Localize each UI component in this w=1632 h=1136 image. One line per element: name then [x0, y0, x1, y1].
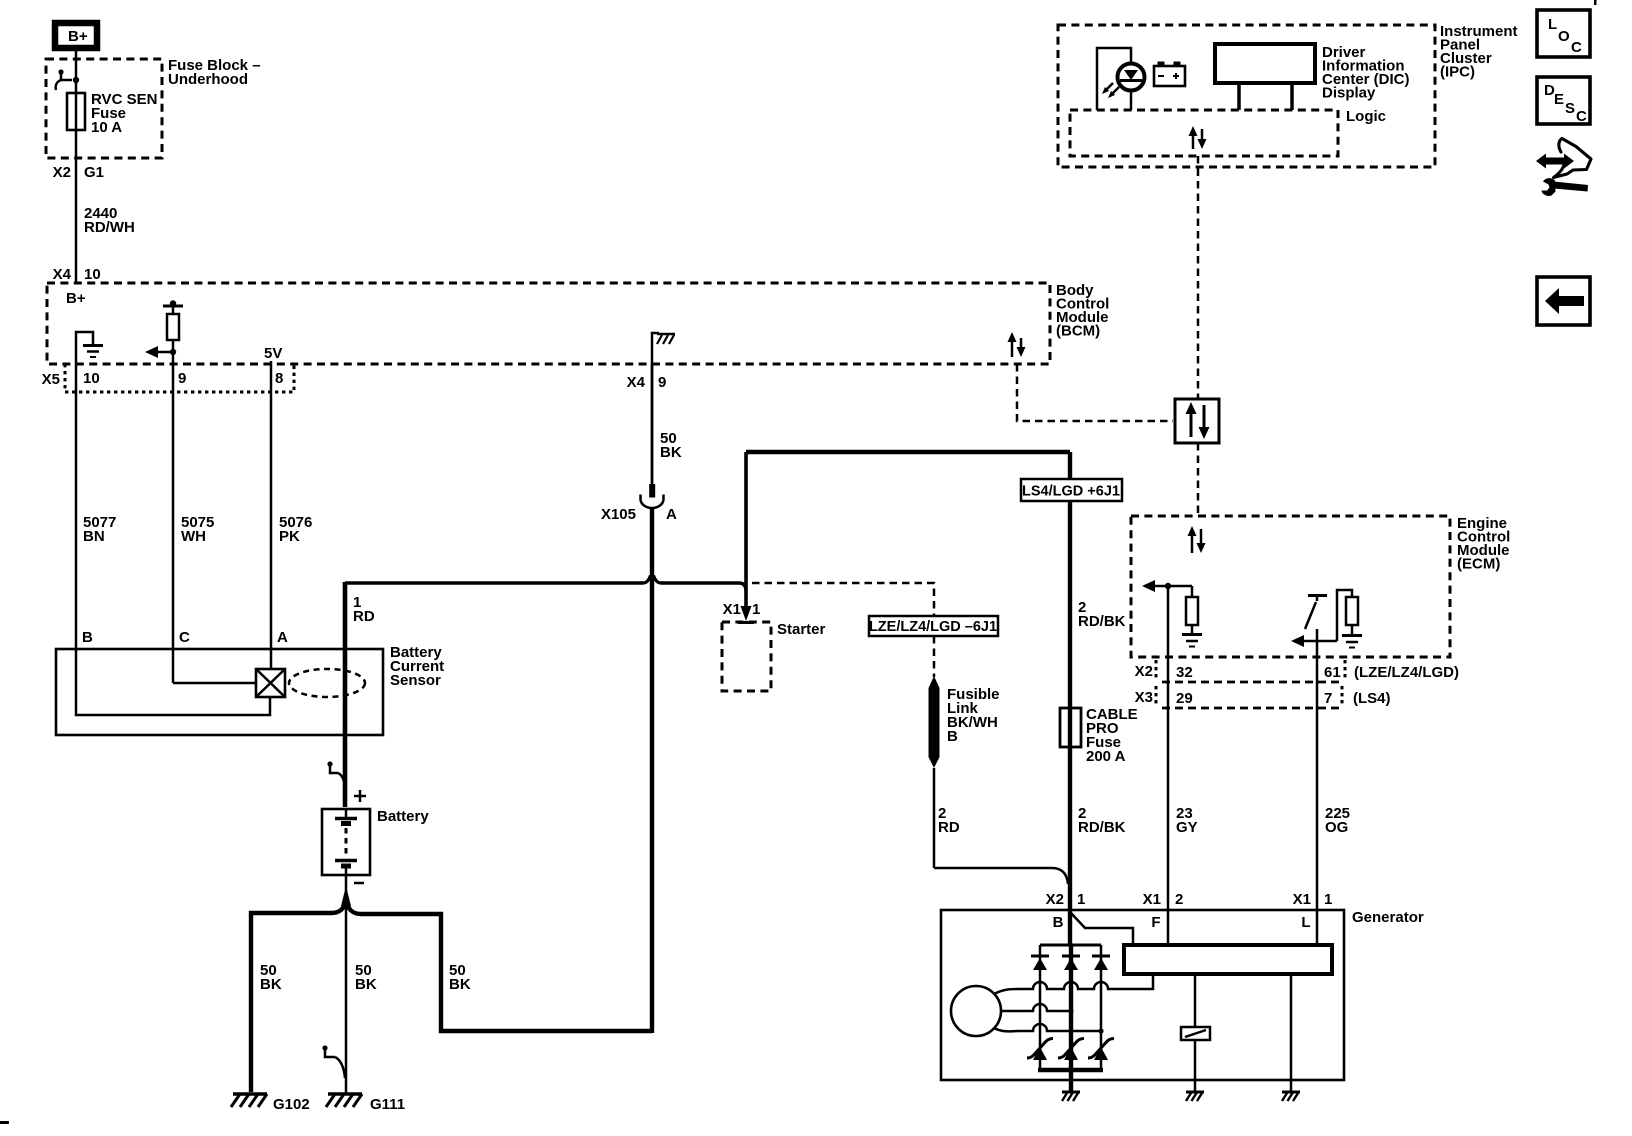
svg-text:X105: X105 — [601, 506, 636, 523]
svg-text:Underhood: Underhood — [168, 71, 248, 88]
generator stator winding circle — [951, 986, 1001, 1036]
wire 5076 PK from X5-8 to sensor pin A — [271, 392, 312, 669]
BCM internal pull-up resistor with supply terminal and signal arrow on pin X5-9 — [145, 300, 183, 364]
svg-text:B+: B+ — [66, 290, 86, 307]
engine control module ECM dashed box — [1131, 515, 1510, 657]
inline connector X105 cavity A — [601, 484, 677, 523]
svg-text:A: A — [666, 506, 677, 523]
svg-text:Generator: Generator — [1352, 909, 1424, 926]
svg-text:(BCM): (BCM) — [1056, 323, 1100, 340]
battery icon in cluster — [1154, 62, 1185, 87]
node battery plus sign — [354, 790, 366, 802]
svg-text:8: 8 — [275, 370, 283, 387]
svg-text:RD: RD — [353, 608, 375, 625]
battery symbol — [322, 808, 429, 875]
dashed wire from label box to fusible link — [933, 636, 936, 677]
svg-text:BN: BN — [83, 528, 105, 545]
svg-text:C: C — [1576, 108, 1587, 125]
rectifier avalanche diode column 1 — [1027, 1039, 1053, 1061]
fuse CABLE PRO 200 A — [1060, 706, 1138, 765]
label box LZE/LZ4/LGD -6J1 — [869, 616, 998, 636]
wire 2440 RD/WH label — [84, 205, 135, 236]
connector row X5 dotted box with pins 10 9 8 — [42, 364, 294, 392]
svg-text:GY: GY — [1176, 819, 1198, 836]
svg-text:RD/BK: RD/BK — [1078, 819, 1126, 836]
BCM internal ground from pin X5-10 — [76, 332, 103, 364]
heavy wire 1 RD horizontal from sensor to starter feed with jumpover bump — [345, 576, 746, 592]
node battery minus sign — [354, 882, 364, 885]
icon DESC box — [1537, 77, 1590, 125]
svg-text:G102: G102 — [273, 1096, 310, 1113]
svg-text:L: L — [1301, 914, 1310, 931]
stator phase lead to column 2 — [1001, 1004, 1071, 1011]
wire 23 GY from ECM X2-32 to generator F — [1168, 586, 1198, 945]
connector labels X2 1 at generator B — [1046, 891, 1086, 931]
heavy wire generator output top horizontal run — [746, 450, 1070, 454]
sensor dashed current loop ellipse — [289, 669, 365, 697]
svg-text:RD/WH: RD/WH — [84, 219, 135, 236]
rectifier avalanche diode column 2 — [1058, 1039, 1084, 1061]
svg-text:200 A: 200 A — [1086, 748, 1126, 765]
svg-text:PK: PK — [279, 528, 300, 545]
svg-text:9: 9 — [658, 374, 666, 391]
svg-text:B+: B+ — [68, 28, 88, 45]
svg-text:Starter: Starter — [777, 621, 826, 638]
chassis ground under regulator — [1282, 1092, 1300, 1101]
junction battery negative splice flare — [341, 886, 351, 906]
svg-text:X2: X2 — [53, 164, 71, 181]
svg-text:RD: RD — [938, 819, 960, 836]
icon back arrow box — [1537, 277, 1590, 325]
field winding element with slash — [1181, 974, 1210, 1092]
svg-text:C: C — [1571, 39, 1582, 56]
svg-text:A: A — [277, 629, 288, 646]
svg-text:Logic: Logic — [1346, 108, 1386, 125]
ring terminal clip at fuse block feed — [56, 69, 80, 90]
chassis ground under rectifier — [1062, 1092, 1080, 1101]
fusible link BK/WH B — [929, 676, 1000, 768]
svg-text:10: 10 — [84, 266, 101, 283]
ECM sense circuit on pin X2-32: arrow junction resistor to ground — [1142, 580, 1202, 647]
connector row X3 pins 29 and 7 — [1135, 686, 1391, 708]
svg-text:LS4/LGD +6J1: LS4/LGD +6J1 — [1022, 484, 1120, 500]
wire 5075 WH from X5-9 to sensor pin C — [173, 364, 214, 649]
BCM serial data arrows — [1008, 332, 1026, 357]
svg-text:B: B — [82, 629, 93, 646]
BCM internal chassis ground on pin X4-9 — [652, 333, 675, 364]
svg-text:RD/BK: RD/BK — [1078, 613, 1126, 630]
node B+ battery positive terminal — [55, 23, 97, 48]
svg-text:X2: X2 — [1135, 663, 1153, 680]
svg-text:O: O — [1558, 28, 1570, 45]
svg-text:B: B — [947, 728, 958, 745]
svg-text:OG: OG — [1325, 819, 1348, 836]
connector labels X1 1 at generator L — [1293, 891, 1333, 931]
instrument panel cluster IPC dashed box — [1058, 23, 1518, 167]
connector X4 pin 10 labels — [53, 266, 101, 283]
connector X2 pin G1 labels — [53, 164, 104, 181]
svg-text:X5: X5 — [42, 371, 60, 388]
svg-text:X4: X4 — [627, 374, 646, 391]
svg-text:LZE/LZ4/LGD –6J1: LZE/LZ4/LGD –6J1 — [869, 619, 997, 635]
dashed serial data wire gateway to ECM — [1197, 443, 1200, 516]
connector row X2 pins 32 and 61 — [1135, 660, 1459, 682]
DIC display box with legs — [1215, 44, 1410, 110]
wire battery negative to G111 ground — [345, 875, 348, 1094]
icon double arrow with wrench — [1536, 139, 1591, 196]
svg-text:BK: BK — [660, 444, 682, 461]
svg-text:Display: Display — [1322, 85, 1376, 102]
heavy wire 2 RD/BK vertical from junction to generator X2-1 — [1068, 452, 1072, 894]
regulator ground leg — [1290, 974, 1293, 1092]
svg-text:WH: WH — [181, 528, 206, 545]
page margin tick bottom left — [0, 1121, 9, 1124]
svg-text:E: E — [1554, 91, 1564, 108]
svg-text:(IPC): (IPC) — [1440, 64, 1475, 81]
wire 50 BK heavy to G102 — [251, 900, 346, 1092]
svg-text:X3: X3 — [1135, 689, 1153, 706]
sensor internal wiring pin B loop — [76, 649, 270, 715]
svg-text:61: 61 — [1324, 664, 1341, 681]
ECM serial data arrows — [1188, 526, 1206, 553]
stator phase lead to column 3 — [994, 1024, 1101, 1031]
stator phase lead to regulator with jumpover humps — [994, 974, 1153, 994]
svg-text:2: 2 — [1175, 891, 1183, 908]
svg-text:29: 29 — [1176, 690, 1193, 707]
svg-text:10: 10 — [83, 370, 100, 387]
svg-text:Battery: Battery — [377, 808, 429, 825]
svg-text:X1: X1 — [1293, 891, 1311, 908]
starter dashed box — [722, 621, 826, 691]
serial data gateway box with arrows — [1175, 399, 1219, 443]
battery current sensor box — [56, 644, 444, 735]
fuse block underhood dashed box — [46, 59, 162, 158]
page margin tick top right — [1594, 0, 1597, 5]
ring terminal clip on G111 wire — [322, 1045, 345, 1078]
svg-text:L: L — [1548, 16, 1557, 33]
wire label 2 RD/BK lower — [1078, 805, 1126, 836]
ring terminal clip at battery positive — [327, 761, 345, 793]
svg-text:(LS4): (LS4) — [1353, 690, 1391, 707]
svg-text:10 A: 10 A — [91, 119, 122, 136]
ground G111 — [326, 1094, 405, 1113]
svg-text:X4: X4 — [53, 266, 72, 283]
heavy wire generator B terminal down to rectifier — [1068, 894, 1072, 945]
wire 50 BK center label for G111 — [355, 962, 377, 993]
svg-text:B: B — [1053, 914, 1064, 931]
svg-text:BK: BK — [449, 976, 471, 993]
sensor internal wiring pin C to hall element — [173, 649, 256, 683]
svg-text:32: 32 — [1176, 664, 1193, 681]
wire 5077 BN from X5-10 to sensor pin B — [76, 364, 116, 649]
voltage regulator box — [1124, 945, 1332, 974]
connector labels X1 2 at generator F — [1143, 891, 1184, 931]
wire from B+ through RVC SEN fuse to BCM X4-10 — [75, 51, 78, 283]
charge indicator LED lamp — [1102, 64, 1145, 99]
heavy battery positive cable 1 RD vertical through sensor — [345, 582, 375, 807]
generator box — [941, 909, 1424, 1080]
svg-text:Sensor: Sensor — [390, 672, 441, 689]
rectifier upper diode column 1 — [1031, 956, 1049, 970]
dashed serial data wire IPC logic to gateway — [1197, 156, 1200, 399]
svg-text:(ECM): (ECM) — [1457, 556, 1500, 573]
icon LOC box — [1537, 10, 1590, 57]
svg-text:9: 9 — [178, 370, 186, 387]
IPC logic dashed box — [1070, 108, 1386, 156]
arrow into starter terminal X1-1 — [723, 601, 761, 623]
rectifier upper diode column 3 — [1092, 956, 1110, 970]
IPC logic serial data arrows — [1189, 126, 1207, 149]
wire label 2 RD/BK upper — [1078, 599, 1126, 630]
rectifier bridge frame — [1038, 945, 1103, 1092]
wire 5V pin X5-8 stub — [270, 361, 273, 392]
wire 50 BK heavy return to X105 junction — [346, 508, 652, 1033]
rectifier avalanche diode column 3 — [1088, 1039, 1114, 1061]
sensor pin labels B C A — [82, 629, 288, 646]
svg-text:(LZE/LZ4/LGD): (LZE/LZ4/LGD) — [1354, 664, 1459, 681]
label box LS4/LGD +6J1 — [1021, 479, 1122, 501]
svg-text:S: S — [1565, 100, 1575, 117]
wire 50 BK from BCM X4-9 to X105 — [652, 364, 682, 484]
svg-text:G1: G1 — [84, 164, 104, 181]
wire 225 OG from ECM X2-61 to generator L — [1317, 629, 1350, 945]
ground G102 — [231, 1094, 310, 1113]
svg-text:X1: X1 — [1143, 891, 1161, 908]
dashed serial data wire BCM to gateway — [1017, 364, 1173, 421]
connector X4 pin 9 labels — [627, 374, 667, 391]
svg-text:BK: BK — [260, 976, 282, 993]
sensor hall element box with X — [256, 669, 285, 697]
svg-text:1: 1 — [1324, 891, 1332, 908]
svg-text:5V: 5V — [264, 345, 282, 362]
fuse RVC SEN 10A — [67, 91, 157, 136]
body control module BCM dashed box — [47, 282, 1109, 364]
charge indicator lamp wiring loop — [1097, 48, 1131, 110]
rectifier upper diode column 2 — [1062, 956, 1080, 970]
svg-text:G111: G111 — [370, 1096, 405, 1113]
ECM switch circuit on pin X2-61: switch arrow resistor to ground — [1291, 590, 1362, 648]
svg-text:7: 7 — [1324, 690, 1332, 707]
svg-text:X2: X2 — [1046, 891, 1064, 908]
svg-text:1: 1 — [1077, 891, 1085, 908]
svg-text:BK: BK — [355, 976, 377, 993]
svg-text:X1: X1 — [723, 601, 741, 618]
svg-text:C: C — [179, 629, 190, 646]
heavy starter feed vertical wire — [744, 452, 748, 606]
chassis ground under field element — [1186, 1092, 1204, 1101]
svg-text:F: F — [1151, 914, 1160, 931]
dashed wire branch to LZE/LZ4/LGD applicability — [752, 583, 934, 616]
wire branch from B to voltage regulator — [1070, 912, 1133, 945]
svg-text:1: 1 — [752, 601, 760, 618]
wire 2 RD from fusible link to generator X2-1 — [934, 768, 1068, 884]
